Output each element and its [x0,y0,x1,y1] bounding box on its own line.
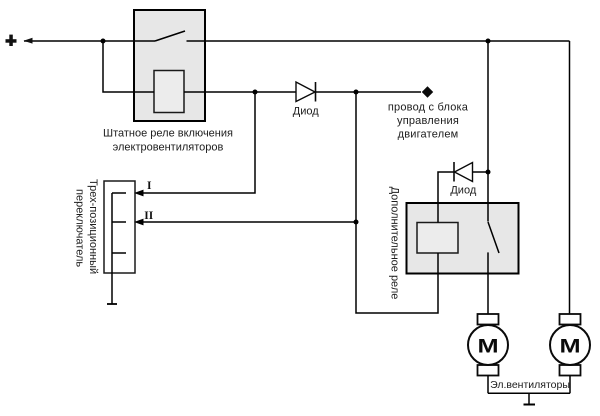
svg-text:провод с блока: провод с блока [388,102,469,114]
relay K1 switch blade [155,31,185,41]
svg-text:двигателем: двигателем [398,129,459,141]
svg-text:Трех-позиционный: Трех-позиционный [87,179,99,274]
wire: ground bus [488,392,570,394]
three-position switch contact II [112,221,126,223]
three-position switch common pole [111,193,113,304]
junction dot node C [253,90,258,95]
wire: node B down to K2 switch top contact [487,41,489,222]
wire: K2 switch bottom contact to fan motor M1 [487,252,489,314]
diode D2 [454,162,473,182]
junction dot node B [486,39,491,44]
svg-text:Диод: Диод [293,106,319,118]
ground stub [528,393,530,404]
junction dot node D [354,90,359,95]
plus terminal [6,35,17,46]
svg-text:II: II [144,210,153,222]
svg-text:Эл.вентиляторы: Эл.вентиляторы [490,379,570,391]
wire: node A down to K1 coil [103,41,154,92]
svg-text:электровентиляторов: электровентиляторов [113,142,224,154]
three-position switch ground tick [107,303,117,305]
wire: D2 to node F [473,171,489,173]
junction dot node F [486,170,491,175]
wire: M1 to ground bus [487,376,489,394]
svg-text:Дополнительное реле: Дополнительное реле [389,187,401,300]
wire: battery feed [24,40,155,42]
svg-text:Диод: Диод [450,185,476,197]
svg-text:I: I [147,180,152,192]
relay K2 box [407,203,519,274]
wire: D1 to engine control terminal [316,91,421,93]
junction dot node E [354,220,359,225]
relay K2 coil [417,223,458,254]
svg-text:М: М [477,335,498,357]
three-position switch box [104,181,135,273]
ground tick [524,404,536,406]
wire: node C down to contact I [143,92,255,193]
wire: K2 coil top to diode D2 [438,172,454,223]
svg-text:управления: управления [397,115,459,127]
wire: M2 to ground bus [569,376,571,394]
engine control terminal diamond [422,86,433,97]
diode D1 [296,82,316,102]
svg-text:М: М [559,335,580,357]
three-position switch contact I [112,192,126,194]
arrowhead contact II [134,219,144,226]
wire: right rail down to fan motor M2 [569,41,571,314]
svg-text:переключатель: переключатель [74,189,86,267]
fan motor M1 [468,314,508,376]
svg-text:Штатное реле включения: Штатное реле включения [103,128,233,140]
wire: K1 switch to right rail [187,40,570,42]
arrowhead contact I [134,190,144,197]
junction dot node A [101,39,106,44]
fan motor M2 [550,314,590,376]
relay K1 box [134,10,205,121]
relay K1 coil [154,71,184,113]
wire: K1 coil to diode D1 [184,91,296,93]
relay K2 switch blade [488,222,499,253]
three-position switch contact III [112,252,126,254]
wire: node E down and around to K2 coil bottom [356,222,438,313]
wire: node D down to contact II [143,92,356,222]
arrowhead to plus terminal [24,38,33,44]
